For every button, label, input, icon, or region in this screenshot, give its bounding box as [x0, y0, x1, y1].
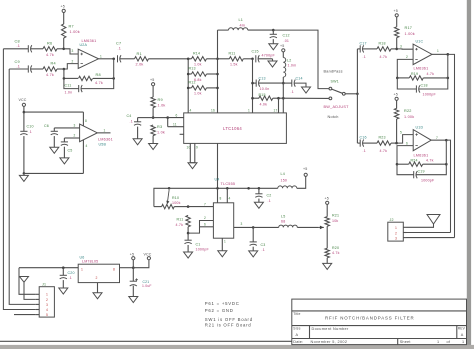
wire node K to L5: [253, 226, 279, 228]
wire R10 left lead: [154, 206, 162, 208]
capacitor C14: [292, 80, 296, 87]
wire R20 to gnd: [326, 258, 328, 264]
wire rail to C17: [357, 48, 360, 50]
svg-text:7: 7: [204, 202, 206, 206]
svg-text:2: 2: [96, 276, 98, 280]
svg-text:+5: +5: [130, 252, 134, 256]
wire C11 loop: [64, 78, 79, 88]
svg-text:2: 2: [204, 216, 206, 220]
wire +5 to R22: [396, 100, 398, 108]
wire U4 pin4 drop: [226, 188, 228, 203]
wire R22 to node H: [396, 119, 398, 143]
svg-text:R13: R13: [189, 67, 196, 71]
svg-text:2: 2: [406, 55, 408, 59]
wire C4 drop: [137, 118, 139, 122]
J1 pin3 stub: [36, 303, 39, 305]
title block line 1: [292, 310, 467, 312]
svg-text:C6: C6: [44, 124, 49, 128]
wire to IC pin6: [168, 117, 184, 119]
node C2 tap: [258, 187, 261, 190]
resistor R24: [409, 162, 423, 166]
wire C13 to node E: [259, 82, 284, 84]
svg-text:C7: C7: [116, 41, 121, 45]
node U1D out: [445, 139, 448, 142]
wire pins 2 6 bracket: [188, 221, 213, 234]
svg-text:P62 = GND: P62 = GND: [205, 308, 234, 313]
svg-text:C14: C14: [296, 76, 303, 80]
capacitor C18: [416, 85, 420, 92]
title block line 2: [292, 325, 467, 327]
node E junction: [282, 82, 285, 85]
svg-text:.1: .1: [29, 130, 32, 134]
plus mark U2A: [81, 53, 83, 55]
capacitor C13: [256, 80, 260, 87]
wire C4 to gnd: [137, 127, 139, 139]
wire C8 to R6: [31, 48, 43, 50]
svg-text:1.5k: 1.5k: [230, 63, 238, 67]
svg-text:Size: Size: [293, 326, 300, 330]
ground C4: [133, 139, 142, 145]
wire C2 drop: [258, 188, 260, 194]
svg-text:+5: +5: [394, 93, 398, 97]
node rail188 rowC: [187, 87, 190, 90]
wire rowB left lead: [188, 73, 191, 75]
resistor R21: [325, 217, 329, 227]
node fb4 right: [445, 163, 448, 166]
svg-text:.1: .1: [17, 64, 21, 68]
J2 pin2 stub: [403, 232, 406, 234]
+5 terminal supply: [132, 257, 135, 260]
svg-text:C8: C8: [15, 40, 20, 44]
svg-text:4: 4: [46, 308, 48, 312]
svg-text:L2: L2: [287, 59, 291, 63]
svg-text:Title: Title: [293, 312, 300, 316]
wire J1 pin1 riser: [19, 268, 36, 295]
node L1 C12: [272, 29, 275, 32]
svg-text:BW_ADJUST: BW_ADJUST: [324, 105, 350, 109]
wire R15 row to notch: [279, 97, 330, 99]
wire J2 pin2: [407, 232, 451, 234]
capacitor C15: [256, 55, 259, 62]
op-amp U2A: [78, 49, 98, 68]
wire node B jog to -in: [64, 64, 78, 69]
title block line 3: [292, 338, 467, 340]
capacitor C21 polarized: [130, 281, 137, 286]
svg-text:2: 2: [395, 231, 397, 235]
svg-text:C18: C18: [421, 84, 428, 88]
plus mark U1D: [415, 133, 417, 135]
svg-text:C4: C4: [127, 114, 132, 118]
IC U4 body: [213, 203, 233, 238]
ground C14: [302, 87, 311, 93]
inductor L2: [283, 58, 285, 78]
svg-text:4.7k: 4.7k: [426, 158, 434, 162]
resistor R14: [192, 57, 207, 61]
wire 555 supply row: [169, 187, 278, 189]
wire R15 to node F: [273, 97, 279, 99]
svg-text:4: 4: [86, 144, 88, 148]
svg-text:U1C: U1C: [416, 39, 424, 43]
resistor R18: [377, 47, 391, 51]
wire +5 riser: [132, 260, 134, 268]
svg-text:C5: C5: [68, 149, 73, 153]
wire rowA right lead: [207, 58, 218, 60]
wire C10 top lead: [23, 112, 25, 131]
svg-text:R14: R14: [193, 51, 200, 55]
node L2 row R15: [282, 97, 285, 100]
svg-text:R4: R4: [51, 62, 56, 66]
svg-text:R20: R20: [332, 246, 339, 250]
svg-text:U2A: U2A: [80, 43, 88, 47]
wire C1 to gnd: [187, 245, 189, 252]
svg-text:2: 2: [74, 134, 76, 138]
VCC terminal stage2: [22, 103, 25, 106]
svg-text:1.0m: 1.0m: [288, 64, 297, 68]
resistor R23: [377, 141, 391, 145]
svg-text:SW1 is OFF Board: SW1 is OFF Board: [205, 317, 253, 322]
svg-text:9: 9: [196, 145, 198, 149]
svg-text:C10: C10: [27, 124, 34, 128]
wire C3 drop: [252, 227, 254, 242]
svg-text:1: 1: [395, 226, 397, 230]
switch lever: [332, 89, 343, 93]
J1 pin2 stub: [36, 298, 39, 300]
ground U3: [188, 163, 197, 169]
ground U4: [218, 251, 227, 257]
wire C5 bottom lead: [63, 147, 65, 158]
svg-text:RFIF NOTCH/BANDPASS FILTER: RFIF NOTCH/BANDPASS FILTER: [325, 315, 415, 320]
wire J2 pin3: [407, 237, 455, 239]
svg-text:4m: 4m: [240, 23, 246, 27]
svg-text:1.0n: 1.0n: [65, 91, 73, 95]
svg-text:+5: +5: [280, 44, 284, 48]
wire U1D -in: [397, 146, 413, 165]
wire C11 to out rail: [81, 59, 114, 89]
svg-text:LM6361: LM6361: [414, 67, 429, 71]
svg-text:R11: R11: [229, 51, 236, 55]
svg-text:R24: R24: [411, 158, 418, 162]
svg-text:6: 6: [176, 113, 178, 117]
svg-text:4.7k: 4.7k: [380, 149, 388, 153]
wire node C to C4: [138, 117, 154, 119]
wire vcc2 down: [23, 106, 25, 112]
capacitor C2: [255, 194, 262, 198]
svg-text:LM6361: LM6361: [82, 39, 97, 43]
ground stage2: [19, 175, 28, 181]
svg-text:1: 1: [248, 109, 250, 113]
bottom window band: [0, 345, 474, 349]
wire U2 output: [99, 58, 114, 60]
IC U6 body: [78, 264, 119, 282]
svg-text:.1: .1: [262, 248, 265, 252]
rail left x188: [187, 59, 189, 113]
wire C6 top lead: [53, 128, 55, 131]
svg-text:R19: R19: [411, 72, 418, 76]
wire R21 to R20: [326, 226, 328, 248]
svg-text:LTC1064: LTC1064: [223, 126, 242, 131]
node row extra: [247, 187, 250, 190]
resistor R12: [192, 86, 207, 90]
title block divider rev: [456, 326, 458, 339]
pot R10 wiper arrow: [167, 190, 169, 203]
VCC terminal supply: [147, 257, 150, 260]
wire C15 to gnd: [258, 58, 272, 60]
capacitor C10: [20, 131, 27, 135]
capacitor C17: [360, 45, 364, 52]
node fb right: [112, 77, 115, 80]
wire L4 to +5: [297, 176, 306, 188]
ground C12: [269, 44, 278, 50]
wire fb3 right lead: [423, 77, 448, 79]
capacitor C8: [28, 45, 32, 52]
resistor R1: [135, 57, 149, 61]
wire U6 out row: [120, 267, 134, 269]
wire R11 to corner: [243, 58, 252, 60]
wire L1 to node: [248, 29, 273, 31]
wire L1 row left corner: [218, 29, 229, 31]
svg-text:+5: +5: [150, 78, 154, 82]
op-amp U5B: [80, 124, 98, 142]
resistor R7: [62, 24, 66, 38]
svg-text:R8: R8: [96, 73, 101, 77]
svg-text:C15: C15: [252, 49, 259, 53]
svg-text:of: of: [447, 340, 451, 344]
svg-text:6: 6: [204, 223, 206, 227]
node fb3 left: [396, 77, 399, 80]
resistor R9: [151, 97, 155, 108]
switch throw notch: [329, 97, 332, 100]
ground J1: [20, 277, 29, 283]
wire C7 to R1: [120, 58, 135, 60]
svg-text:1000pF: 1000pF: [423, 92, 437, 96]
wire pin3 U5: [54, 127, 79, 129]
wire U4 pin1 drop: [221, 238, 223, 251]
ground C1: [184, 252, 193, 258]
node I junction: [187, 205, 190, 208]
svg-text:10k: 10k: [332, 219, 338, 223]
svg-text:A: A: [296, 333, 299, 337]
+5 terminal mid: [152, 83, 155, 86]
resistor R6: [43, 47, 57, 51]
ground J2: [427, 215, 440, 225]
node D junction: [166, 116, 169, 119]
svg-text:4: 4: [229, 197, 231, 201]
wire L2 column to IC: [282, 83, 284, 113]
svg-text:3: 3: [72, 49, 74, 53]
svg-text:17: 17: [274, 109, 278, 113]
plus mark C21: [135, 278, 138, 281]
wire pin6 branch: [200, 226, 214, 228]
ground C2: [254, 202, 263, 208]
svg-text:100k: 100k: [172, 201, 181, 205]
svg-text:1000pF: 1000pF: [196, 247, 210, 251]
bottom frame line: [0, 340, 292, 342]
wire C16 to R23: [363, 142, 377, 144]
wire C2 to gnd: [258, 199, 260, 203]
node U6 in: [62, 266, 65, 269]
wire VCC branch: [133, 260, 149, 268]
wire +5 to R17: [396, 17, 398, 27]
svg-text:C16: C16: [360, 136, 367, 140]
svg-text:BandPass: BandPass: [324, 70, 343, 74]
wire U1C -in: [397, 59, 413, 78]
node switch rail: [356, 93, 359, 96]
svg-text:L5: L5: [281, 214, 285, 218]
IC U3 body: [184, 113, 287, 143]
svg-text:4: 4: [190, 109, 192, 113]
node rail188 rowB: [187, 73, 190, 76]
wire R1 to rail: [149, 58, 189, 60]
wire common to rail: [345, 93, 357, 95]
wire fb3 left lead: [397, 77, 409, 79]
node rail217 rowB: [216, 73, 219, 76]
wire to IC pin11: [168, 126, 184, 128]
wire C17 to R18: [363, 48, 377, 50]
minus mark U1D: [415, 145, 417, 147]
svg-text:LM6361: LM6361: [98, 137, 113, 141]
svg-text:1: 1: [462, 340, 464, 344]
svg-text:.01: .01: [284, 39, 290, 43]
svg-text:Notch: Notch: [328, 115, 339, 119]
wire R7 to node: [63, 38, 65, 49]
wire C5 top lead: [63, 138, 65, 142]
wire U3 clock drop: [217, 143, 219, 188]
wire node E to C14: [283, 82, 292, 84]
svg-text:.1: .1: [69, 276, 72, 280]
plus mark U1C: [415, 48, 417, 50]
op-amp U1C: [413, 44, 432, 65]
wire node G to +in: [397, 48, 413, 50]
wire row1 rail to R11: [218, 58, 230, 60]
minus mark U1C: [415, 58, 417, 60]
ground R20: [323, 263, 332, 269]
svg-text:16: 16: [211, 109, 215, 113]
wire C12 drop: [272, 30, 274, 34]
svg-text:6: 6: [406, 141, 408, 145]
wire node H jog to +in: [397, 135, 414, 144]
svg-text:68: 68: [281, 220, 285, 224]
capacitor C6: [51, 131, 58, 135]
svg-text:R21: R21: [332, 214, 339, 218]
svg-text:4.7k: 4.7k: [95, 81, 103, 85]
wire U3 gnd join: [190, 162, 195, 164]
svg-text:U4: U4: [215, 177, 220, 181]
wire R10 to node I: [174, 206, 188, 208]
svg-text:C3: C3: [261, 243, 266, 247]
svg-text:LM6361: LM6361: [414, 153, 429, 157]
svg-text:TLC555: TLC555: [221, 182, 236, 186]
svg-text:.1: .1: [268, 199, 271, 203]
wire C21 to gnd: [132, 286, 134, 297]
connector J2 body: [388, 222, 404, 241]
wire 555 row left corner: [154, 188, 169, 206]
rail x252 down to IC: [252, 59, 254, 113]
svg-text:8: 8: [85, 119, 87, 123]
svg-text:4.7k: 4.7k: [427, 72, 435, 76]
op-amp U1D: [413, 130, 431, 151]
title block divider size: [309, 326, 311, 339]
svg-text:1.00k: 1.00k: [70, 30, 80, 34]
wire input row1 left: [3, 48, 28, 50]
svg-text:R17: R17: [405, 26, 413, 30]
resistor R11a: [229, 57, 243, 61]
wire U1D output: [431, 139, 446, 141]
resistor R10: [162, 204, 175, 208]
svg-text:1: 1: [224, 239, 226, 243]
svg-text:VCC: VCC: [144, 252, 152, 256]
ground C6: [50, 147, 59, 153]
svg-text:R1: R1: [137, 52, 142, 56]
svg-text:1.0k: 1.0k: [157, 130, 165, 134]
node F junction: [277, 97, 280, 100]
svg-text:R18: R18: [379, 42, 386, 46]
resistor R13: [192, 72, 207, 76]
wire J2 pin1 to gnd: [407, 224, 434, 227]
minus mark U2A: [81, 63, 83, 65]
capacitor C19: [414, 171, 418, 178]
svg-text:+5: +5: [303, 167, 307, 171]
wire rail to C16: [357, 142, 360, 144]
svg-text:C11: C11: [65, 84, 72, 88]
wire C3 to gnd: [252, 247, 254, 251]
node K junction: [252, 226, 255, 229]
svg-text:J1: J1: [42, 282, 46, 286]
wire U5 output stub: [97, 132, 110, 134]
wire C20 drop: [62, 268, 64, 276]
wire R18 to node G: [391, 48, 397, 50]
wire fb4 left lead: [397, 163, 409, 165]
node rail217 row1: [216, 58, 219, 61]
node rail188 row1: [187, 58, 190, 61]
wire U3 left pin stub: [180, 133, 184, 135]
svg-text:P61 = +5VDC: P61 = +5VDC: [205, 301, 240, 306]
inductor L1: [229, 28, 248, 30]
node rail252 C13: [251, 82, 254, 85]
node U6 out: [132, 266, 135, 269]
node VCC2: [23, 111, 26, 114]
svg-text:2.0k: 2.0k: [136, 62, 144, 66]
svg-text:L1: L1: [239, 18, 244, 22]
wire rowC left lead: [188, 87, 191, 89]
svg-text:R15: R15: [259, 93, 266, 97]
svg-text:2: 2: [72, 59, 74, 63]
svg-text:1.0k: 1.0k: [158, 103, 166, 107]
svg-text:1000pF: 1000pF: [421, 178, 435, 182]
wire C21 drop: [132, 268, 134, 282]
svg-text:4.7k: 4.7k: [380, 55, 388, 59]
+5 terminal stage4: [395, 97, 398, 100]
wire R15 row left: [253, 97, 260, 99]
svg-text:+5: +5: [325, 197, 329, 201]
svg-text:.1: .1: [17, 44, 21, 48]
J1 pin1 stub: [36, 293, 39, 295]
svg-text:4.7k: 4.7k: [176, 223, 184, 227]
svg-text:U1D: U1D: [416, 126, 424, 130]
wire R9 to node C: [152, 108, 154, 118]
J2 pin3 stub: [403, 237, 406, 239]
svg-text:R10: R10: [172, 196, 179, 200]
capacitor C5: [61, 142, 68, 146]
svg-text:SW1: SW1: [331, 79, 339, 83]
node G junction: [395, 48, 398, 51]
right window band: [467, 0, 471, 345]
svg-text:J2: J2: [390, 218, 394, 222]
svg-text:1.00k: 1.00k: [405, 32, 415, 36]
wire pin8 drop: [82, 112, 84, 126]
capacitor C1: [185, 240, 192, 244]
svg-text:8: 8: [113, 268, 115, 272]
svg-text:1.00k: 1.00k: [404, 115, 414, 119]
